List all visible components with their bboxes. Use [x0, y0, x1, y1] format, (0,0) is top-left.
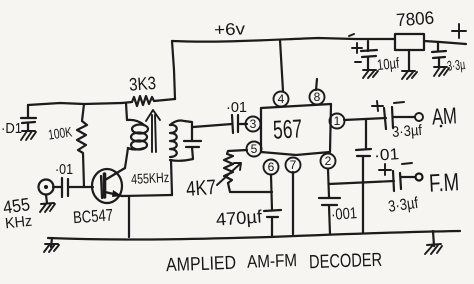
svg-text:F.M: F.M — [428, 168, 459, 198]
svg-text:4K7: 4K7 — [185, 176, 217, 201]
svg-text:3K3: 3K3 — [128, 73, 156, 95]
svg-text:567: 567 — [272, 113, 303, 144]
svg-text:100K: 100K — [47, 123, 73, 142]
svg-text:8: 8 — [314, 90, 321, 104]
svg-text:1: 1 — [334, 114, 341, 128]
svg-text:·01: ·01 — [374, 146, 400, 165]
svg-text:455KHz: 455KHz — [131, 169, 170, 187]
svg-text:AM: AM — [431, 102, 457, 129]
svg-text:6: 6 — [268, 160, 275, 174]
svg-text:AM-FM: AM-FM — [247, 250, 298, 272]
svg-text:470µf: 470µf — [215, 206, 263, 229]
svg-text:4: 4 — [278, 92, 285, 106]
svg-text:5: 5 — [251, 142, 258, 156]
svg-text:10µf: 10µf — [376, 55, 400, 74]
svg-text:·01: ·01 — [55, 161, 73, 178]
svg-text:+6v: +6v — [214, 19, 246, 39]
svg-text:7806: 7806 — [395, 8, 434, 31]
svg-text:3: 3 — [250, 117, 257, 131]
svg-text:·D1: ·D1 — [1, 120, 22, 137]
svg-text:AMPLIED: AMPLIED — [166, 253, 237, 276]
svg-text:BC547: BC547 — [72, 206, 113, 228]
svg-text:7: 7 — [290, 158, 297, 172]
svg-text:·01: ·01 — [226, 99, 247, 116]
svg-text:3·3µf: 3·3µf — [391, 122, 423, 141]
svg-text:KHz: KHz — [4, 213, 33, 233]
svg-text:2: 2 — [325, 154, 332, 168]
svg-text:3·3µ: 3·3µ — [446, 56, 466, 74]
svg-text:DECODER: DECODER — [309, 250, 383, 274]
svg-text:·001: ·001 — [331, 205, 358, 224]
